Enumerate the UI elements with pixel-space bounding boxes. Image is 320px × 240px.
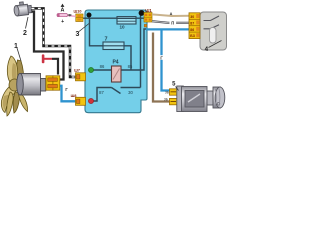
green terminal dot — [88, 67, 93, 72]
svg-text:+: + — [61, 19, 64, 25]
blue wire fan to red connector — [60, 86, 76, 102]
ignition switch 4 body — [200, 12, 227, 50]
wire W1: Sh10 to Sh1 through top fuse — [83, 17, 147, 19]
svg-text:30: 30 — [128, 90, 133, 95]
fuse F top — [117, 17, 136, 24]
svg-text:Ф: Ф — [68, 13, 72, 18]
label 1 + leader — [17, 48, 21, 61]
svg-text:86: 86 — [100, 64, 105, 69]
svg-text:10: 10 — [119, 25, 125, 30]
brown wire Sh1 to sensor 5 — [153, 33, 170, 102]
svg-text:ЗБ: ЗБ — [165, 91, 169, 95]
red terminal dot — [88, 98, 93, 103]
tan wire A: Sh1 to ignition 30 — [152, 14, 189, 16]
sensor 2 (temp switch, top left) — [13, 1, 32, 16]
fan connector (two yellow halves) — [46, 76, 53, 90]
svg-text:3: 3 — [76, 31, 80, 38]
svg-text:Б3: Б3 — [190, 34, 195, 38]
sensor 5 connector tabs — [170, 89, 178, 95]
fan 1 blades — [1, 56, 27, 116]
svg-text:7: 7 — [104, 37, 107, 43]
svg-text:П: П — [171, 20, 174, 25]
ground wire with red terminal — [44, 58, 52, 60]
label 2 + leader — [26, 17, 29, 29]
relay coil line 86-85 — [91, 29, 146, 70]
junction dot D2 — [139, 10, 145, 16]
mounting block 3 (cyan box) — [85, 10, 147, 113]
fan 1 motor — [17, 73, 46, 95]
ignition connector — [189, 13, 200, 39]
relay contact arm — [112, 88, 121, 94]
wire W6: relay 30 up to junction D2 — [140, 15, 142, 88]
svg-text:85: 85 — [128, 64, 133, 69]
junction dot D1 — [87, 13, 92, 18]
wire W3: fuse 7 output down to relay line — [124, 46, 131, 70]
relay contact line 87-30 — [91, 88, 141, 102]
svg-text:Ш10: Ш10 — [73, 9, 81, 13]
svg-text:4: 4 — [205, 46, 209, 53]
gray wire P: Sh1 to ignition 87 — [152, 21, 189, 23]
svg-text:1: 1 — [14, 43, 18, 50]
svg-text:ЗБ: ЗБ — [164, 98, 168, 102]
svg-text:А: А — [170, 12, 173, 16]
label 3 + leader — [79, 24, 89, 32]
svg-text:2: 2 — [23, 30, 27, 37]
wire W2: branch down to fuse 7 — [90, 18, 105, 46]
svg-text:87: 87 — [190, 21, 194, 25]
label 5 + leader — [176, 87, 179, 91]
relay K coil P4 — [112, 66, 122, 82]
svg-text:А: А — [61, 8, 65, 14]
svg-text:Р4: Р4 — [112, 60, 118, 66]
svg-text:30: 30 — [190, 15, 194, 19]
svg-text:87: 87 — [99, 90, 104, 95]
sensor 5 body — [177, 86, 225, 112]
fuse 7 — [103, 42, 124, 50]
svg-text:86: 86 — [190, 28, 194, 32]
svg-text:Ш7: Ш7 — [74, 68, 80, 72]
label 4 + leader — [209, 41, 222, 48]
fuse F (pink) with A arrow and + — [67, 15, 76, 16]
wire B (dashed black/white) sensor2 to green connector — [32, 8, 76, 77]
wire A (black) sensor2 to fan connector — [32, 12, 64, 80]
blue wire: Sh1 to ignition 86 and sensor 5 — [146, 28, 189, 30]
